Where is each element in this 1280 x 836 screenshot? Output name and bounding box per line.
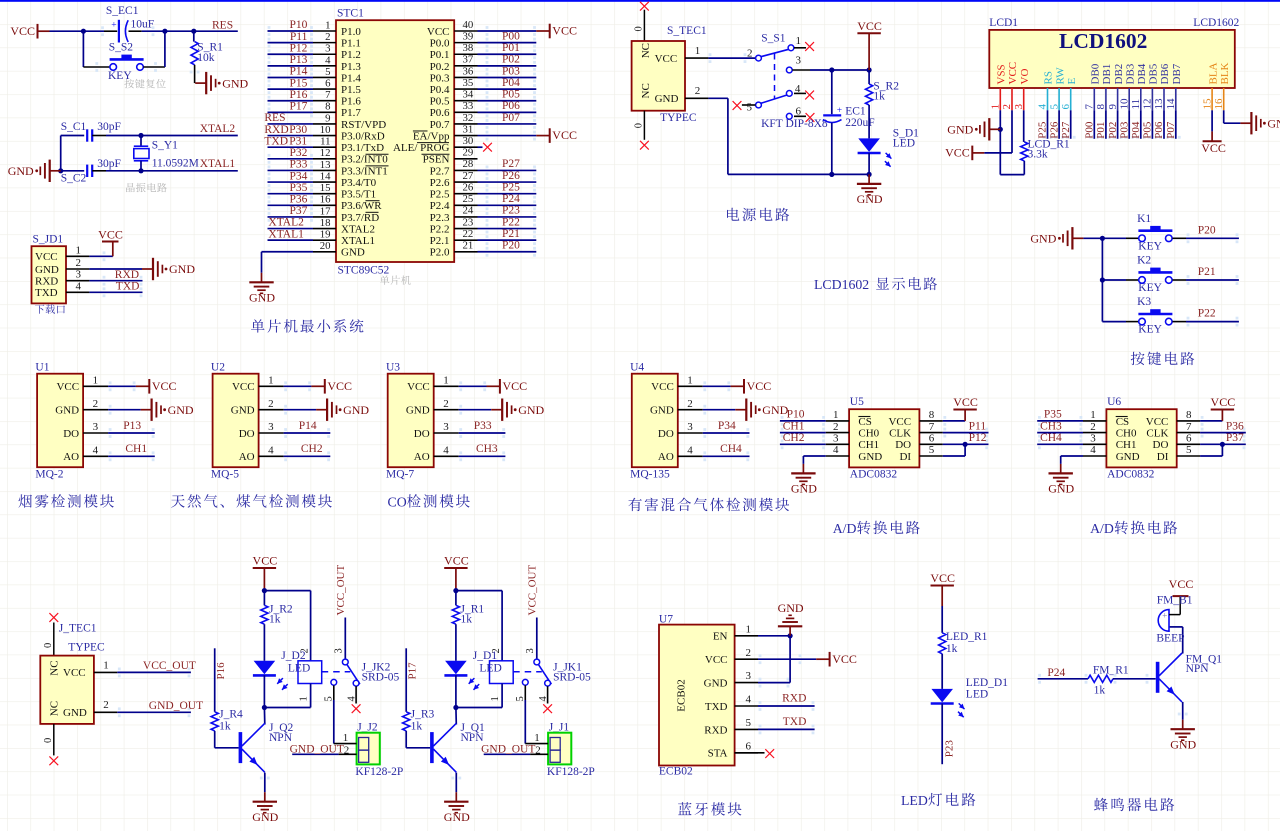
svg-text:GND: GND [249, 291, 275, 305]
svg-text:P05: P05 [502, 89, 520, 101]
svg-text:GND: GND [655, 93, 679, 105]
svg-text:1: 1 [268, 375, 274, 387]
svg-text:NPN: NPN [461, 732, 485, 744]
svg-text:XTAL2: XTAL2 [341, 223, 375, 235]
svg-text:1: 1 [695, 45, 701, 57]
svg-text:KEY: KEY [1138, 324, 1162, 336]
svg-text:RES: RES [264, 112, 285, 124]
svg-text:GND: GND [947, 123, 973, 137]
svg-text:31: 31 [463, 123, 474, 135]
svg-text:1k: 1k [946, 643, 958, 655]
svg-text:XTAL1: XTAL1 [200, 158, 236, 170]
svg-text:7: 7 [1084, 104, 1096, 110]
svg-text:P1.6: P1.6 [341, 96, 361, 108]
svg-text:10k: 10k [197, 52, 215, 64]
svg-text:30pF: 30pF [97, 158, 121, 170]
svg-text:LED: LED [479, 663, 501, 675]
svg-text:DO: DO [658, 428, 674, 440]
svg-text:VCC: VCC [552, 128, 577, 142]
svg-text:VCC_OUT: VCC_OUT [335, 564, 347, 615]
svg-text:GND: GND [444, 810, 470, 824]
svg-text:10uF: 10uF [131, 18, 155, 30]
svg-text:10: 10 [320, 124, 331, 136]
svg-text:AO: AO [239, 451, 255, 463]
svg-text:S_EC1: S_EC1 [106, 5, 139, 17]
svg-text:GND: GND [858, 451, 882, 463]
svg-text:KF128-2P: KF128-2P [547, 766, 595, 778]
svg-text:VCC: VCC [655, 53, 678, 65]
svg-text:CH3: CH3 [476, 443, 498, 455]
svg-text:24: 24 [463, 205, 474, 217]
svg-text:5: 5 [746, 717, 752, 729]
svg-text:8: 8 [1095, 104, 1107, 110]
svg-text:22: 22 [463, 228, 474, 240]
svg-text:J_TEC1: J_TEC1 [59, 623, 97, 635]
svg-text:GND: GND [252, 810, 278, 824]
svg-text:P1.3: P1.3 [341, 61, 361, 73]
svg-text:LCD1602: LCD1602 [1193, 17, 1239, 29]
svg-text:P3.5/T1: P3.5/T1 [341, 189, 376, 201]
svg-text:2: 2 [93, 398, 99, 410]
svg-text:VCC: VCC [705, 654, 728, 666]
svg-text:DB1: DB1 [1101, 64, 1113, 85]
svg-text:RES: RES [212, 19, 233, 31]
svg-text:4: 4 [76, 280, 82, 292]
svg-text:16: 16 [320, 194, 331, 206]
svg-text:1: 1 [93, 375, 99, 387]
svg-text:CS: CS [1116, 416, 1129, 428]
svg-text:SRD-05: SRD-05 [553, 672, 591, 684]
svg-text:LCD1602: LCD1602 [814, 277, 869, 292]
svg-text:STC1: STC1 [337, 8, 364, 20]
svg-text:13: 13 [1153, 98, 1165, 110]
svg-text:30pF: 30pF [97, 121, 121, 133]
svg-text:NC: NC [49, 660, 61, 675]
svg-text:CO: CO [388, 495, 407, 510]
svg-text:RXD: RXD [115, 269, 139, 281]
svg-text:NC: NC [640, 83, 652, 98]
svg-text:DO: DO [63, 428, 79, 440]
svg-text:NPN: NPN [269, 732, 293, 744]
svg-text:DO: DO [239, 428, 255, 440]
svg-text:RXD: RXD [704, 724, 727, 736]
svg-text:12: 12 [320, 147, 331, 159]
svg-text:P3.2/INT0: P3.2/INT0 [341, 154, 388, 166]
svg-text:1: 1 [490, 696, 501, 701]
svg-text:40: 40 [463, 19, 474, 31]
svg-text:2: 2 [443, 398, 449, 410]
svg-text:GND: GND [791, 482, 817, 496]
svg-text:VCC: VCC [232, 381, 255, 393]
svg-text:P0.0: P0.0 [430, 38, 450, 50]
svg-text:P14: P14 [299, 420, 317, 432]
svg-text:3: 3 [93, 421, 99, 433]
svg-text:P27: P27 [502, 158, 520, 170]
svg-text:1: 1 [1090, 409, 1096, 421]
svg-text:NPN: NPN [1186, 663, 1210, 675]
svg-text:P06: P06 [502, 100, 520, 112]
svg-text:VCC: VCC [857, 19, 882, 33]
svg-text:2: 2 [1090, 421, 1096, 433]
svg-text:P37: P37 [289, 205, 307, 217]
svg-text:1: 1 [833, 409, 839, 421]
svg-text:P11: P11 [290, 31, 308, 43]
svg-text:P03: P03 [1118, 121, 1130, 139]
svg-text:4: 4 [1037, 104, 1049, 110]
svg-text:DB4: DB4 [1136, 63, 1148, 84]
svg-text:PSEN: PSEN [423, 154, 450, 166]
svg-text:3: 3 [833, 433, 839, 445]
svg-text:U1: U1 [35, 362, 49, 374]
svg-text:2: 2 [833, 421, 839, 433]
svg-text:P3.6/WR: P3.6/WR [341, 200, 382, 212]
svg-text:8: 8 [929, 409, 935, 421]
svg-text:GND: GND [343, 403, 369, 417]
svg-text:GND: GND [650, 405, 674, 417]
svg-text:VCC: VCC [10, 24, 35, 38]
svg-text:1k: 1k [1094, 684, 1106, 696]
svg-text:VCC: VCC [63, 667, 86, 679]
svg-text:P0.2: P0.2 [430, 61, 450, 73]
svg-text:KEY: KEY [1138, 240, 1162, 252]
svg-text:EC1: EC1 [845, 106, 866, 118]
svg-text:K3: K3 [1137, 296, 1151, 308]
svg-text:P22: P22 [1198, 308, 1216, 320]
svg-text:LED_R1: LED_R1 [946, 631, 988, 643]
svg-text:A/D: A/D [1090, 521, 1114, 536]
svg-text:CH2: CH2 [301, 443, 323, 455]
svg-text:18: 18 [320, 217, 331, 229]
svg-text:P1.1: P1.1 [341, 38, 361, 50]
svg-text:GND_OUT: GND_OUT [290, 744, 344, 756]
svg-text:1: 1 [796, 35, 802, 47]
svg-text:16: 16 [1213, 98, 1225, 110]
svg-text:11: 11 [320, 136, 330, 148]
svg-text:P22: P22 [502, 216, 520, 228]
svg-text:P07: P07 [1165, 121, 1177, 139]
svg-text:21: 21 [463, 240, 474, 252]
svg-text:1: 1 [298, 696, 309, 701]
svg-text:25: 25 [463, 193, 474, 205]
svg-text:3: 3 [268, 421, 274, 433]
svg-text:9: 9 [1107, 104, 1119, 110]
svg-text:P13: P13 [123, 420, 141, 432]
svg-text:1: 1 [746, 623, 752, 635]
svg-text:P30: P30 [289, 124, 307, 136]
svg-text:GND: GND [762, 403, 788, 417]
svg-text:5: 5 [929, 444, 935, 456]
svg-text:VCC: VCC [953, 395, 978, 409]
svg-text:6: 6 [746, 740, 752, 752]
svg-text:CH1: CH1 [783, 420, 805, 432]
svg-text:P25: P25 [1037, 121, 1049, 139]
svg-text:+: + [837, 106, 842, 116]
svg-text:TYPEC: TYPEC [660, 112, 697, 124]
svg-text:J_R3: J_R3 [411, 709, 435, 721]
svg-text:P04: P04 [502, 77, 520, 89]
svg-text:4: 4 [93, 445, 99, 457]
svg-text:S_C1: S_C1 [61, 121, 87, 133]
svg-text:ADC0832: ADC0832 [850, 469, 898, 481]
svg-text:32: 32 [463, 112, 474, 124]
svg-text:P01: P01 [1095, 122, 1107, 139]
svg-text:GND: GND [518, 403, 544, 417]
svg-text:LED: LED [901, 793, 928, 808]
svg-text:P0.3: P0.3 [430, 72, 450, 84]
svg-text:2: 2 [535, 744, 541, 756]
svg-text:3: 3 [796, 55, 802, 67]
svg-text:2: 2 [687, 398, 693, 410]
svg-text:ECB02: ECB02 [676, 679, 688, 711]
svg-text:DB2: DB2 [1113, 64, 1125, 85]
svg-text:VCC: VCC [1007, 62, 1019, 85]
svg-text:GND: GND [1170, 738, 1196, 752]
svg-text:P2.5: P2.5 [430, 189, 450, 201]
svg-text:P32: P32 [289, 147, 307, 159]
svg-text:220uF: 220uF [845, 117, 874, 129]
svg-text:S_Y1: S_Y1 [152, 139, 178, 151]
svg-text:DB6: DB6 [1159, 63, 1171, 84]
svg-text:P25: P25 [502, 181, 520, 193]
svg-text:P2.4: P2.4 [430, 200, 450, 212]
svg-text:CH4: CH4 [720, 443, 742, 455]
svg-text:P33: P33 [474, 420, 492, 432]
svg-text:VCC: VCC [930, 571, 955, 585]
svg-text:S_TEC1: S_TEC1 [667, 25, 707, 37]
svg-text:STA: STA [708, 748, 728, 760]
svg-text:LED: LED [288, 663, 310, 675]
svg-text:J_R4: J_R4 [219, 709, 243, 721]
svg-text:KF128-2P: KF128-2P [355, 766, 403, 778]
svg-text:GND: GND [8, 164, 34, 178]
svg-text:TXD: TXD [705, 701, 728, 713]
svg-text:VCC: VCC [1169, 577, 1194, 591]
svg-text:DB7: DB7 [1171, 63, 1183, 84]
svg-text:GND: GND [1030, 232, 1056, 246]
svg-text:RXD: RXD [264, 124, 288, 136]
svg-text:P3.4/T0: P3.4/T0 [341, 177, 377, 189]
svg-text:1k: 1k [269, 613, 281, 625]
svg-text:2: 2 [103, 699, 109, 711]
svg-text:P34: P34 [289, 170, 307, 182]
svg-text:33: 33 [463, 100, 474, 112]
svg-text:P23: P23 [944, 740, 956, 758]
svg-text:NC: NC [640, 43, 652, 58]
svg-text:1k: 1k [411, 721, 423, 733]
svg-text:DB0: DB0 [1090, 63, 1102, 84]
svg-text:P24: P24 [1047, 667, 1065, 679]
svg-text:FM_B1: FM_B1 [1157, 594, 1193, 606]
svg-text:VCC: VCC [407, 381, 430, 393]
svg-text:DI: DI [1157, 451, 1169, 463]
svg-text:RXD: RXD [35, 276, 58, 288]
svg-text:VCC: VCC [327, 379, 352, 393]
svg-text:S_JD1: S_JD1 [33, 234, 64, 246]
svg-text:P35: P35 [1044, 409, 1062, 421]
svg-text:GND: GND [1267, 116, 1280, 130]
svg-text:GND: GND [55, 405, 79, 417]
svg-text:LCD1: LCD1 [989, 17, 1018, 29]
svg-text:+: + [1162, 611, 1167, 621]
svg-text:2: 2 [268, 398, 274, 410]
svg-text:P24: P24 [502, 193, 520, 205]
svg-text:6: 6 [325, 78, 331, 90]
svg-text:26: 26 [463, 181, 474, 193]
svg-text:DB5: DB5 [1148, 63, 1160, 84]
svg-text:20: 20 [320, 240, 331, 252]
svg-text:3: 3 [687, 421, 693, 433]
svg-text:15: 15 [1201, 98, 1213, 110]
svg-text:29: 29 [463, 147, 474, 159]
svg-text:GND: GND [704, 678, 728, 690]
svg-text:3: 3 [1090, 433, 1096, 445]
svg-text:3: 3 [333, 648, 344, 653]
svg-text:28: 28 [463, 158, 474, 170]
svg-text:VCC: VCC [552, 24, 577, 38]
svg-text:14: 14 [320, 170, 331, 182]
svg-text:XTAL1: XTAL1 [268, 228, 304, 240]
svg-text:0: 0 [43, 738, 54, 743]
svg-text:P12: P12 [289, 42, 307, 54]
svg-text:VCC: VCC [747, 379, 772, 393]
svg-text:KEY: KEY [1138, 282, 1162, 294]
svg-text:4: 4 [1090, 444, 1096, 456]
svg-text:J_D2: J_D2 [281, 650, 306, 662]
svg-text:1: 1 [534, 732, 540, 744]
svg-text:AO: AO [63, 451, 79, 463]
svg-text:7: 7 [325, 89, 331, 101]
svg-text:EN: EN [713, 631, 728, 643]
svg-text:P3.0/RxD: P3.0/RxD [341, 130, 385, 142]
svg-text:CH1: CH1 [1116, 439, 1137, 451]
svg-text:12: 12 [1142, 99, 1154, 110]
svg-text:P21: P21 [1198, 266, 1216, 278]
svg-text:38: 38 [463, 42, 474, 54]
svg-text:XTAL2: XTAL2 [268, 217, 304, 229]
svg-text:LED: LED [893, 138, 915, 150]
svg-text:P31: P31 [289, 135, 307, 147]
svg-text:3: 3 [746, 670, 752, 682]
svg-text:5: 5 [747, 102, 753, 114]
svg-text:P37: P37 [1226, 432, 1244, 444]
svg-text:SRD-05: SRD-05 [362, 672, 400, 684]
svg-text:P10: P10 [787, 409, 805, 421]
svg-text:XTAL2: XTAL2 [200, 123, 236, 135]
svg-text:S_S2: S_S2 [109, 41, 134, 53]
svg-text:STC89C52: STC89C52 [338, 265, 390, 277]
svg-text:27: 27 [463, 170, 474, 182]
svg-text:P35: P35 [289, 182, 307, 194]
svg-text:3: 3 [325, 43, 330, 55]
svg-text:GND: GND [35, 264, 59, 276]
svg-text:3: 3 [525, 648, 536, 653]
svg-text:2: 2 [1001, 104, 1013, 110]
svg-text:S_C2: S_C2 [61, 172, 87, 184]
svg-text:P21: P21 [502, 228, 520, 240]
svg-text:TXD: TXD [264, 135, 288, 147]
svg-text:13: 13 [320, 159, 331, 171]
svg-text:P00: P00 [502, 30, 520, 42]
svg-text:P2.7: P2.7 [430, 165, 450, 177]
svg-text:1: 1 [76, 244, 82, 256]
svg-text:ALE/ PROG: ALE/ PROG [393, 142, 450, 154]
svg-text:P0.5: P0.5 [430, 96, 450, 108]
svg-text:DB3: DB3 [1124, 63, 1136, 84]
svg-text:EA/Vpp: EA/Vpp [413, 130, 450, 142]
svg-text:K2: K2 [1137, 255, 1151, 267]
svg-text:DO: DO [895, 439, 911, 451]
svg-text:2: 2 [76, 257, 82, 269]
svg-text:P13: P13 [289, 54, 307, 66]
svg-text:U5: U5 [850, 396, 864, 408]
svg-text:P34: P34 [718, 420, 736, 432]
svg-text:P17: P17 [289, 101, 307, 113]
svg-text:1k: 1k [873, 91, 885, 103]
svg-text:P0.6: P0.6 [430, 107, 450, 119]
svg-text:VCC: VCC [888, 416, 911, 428]
svg-text:J_D1: J_D1 [473, 650, 498, 662]
svg-text:4: 4 [687, 445, 693, 457]
svg-text:1: 1 [343, 732, 349, 744]
svg-text:P1.7: P1.7 [341, 107, 361, 119]
svg-text:5: 5 [325, 66, 330, 78]
svg-text:GND_OUT: GND_OUT [149, 700, 203, 712]
svg-text:2: 2 [746, 647, 752, 659]
svg-text:P20: P20 [502, 240, 520, 252]
svg-text:BLK: BLK [1219, 62, 1231, 84]
svg-text:GND: GND [222, 76, 248, 90]
svg-text:GND: GND [857, 192, 883, 206]
svg-text:P12: P12 [969, 432, 987, 444]
svg-text:5: 5 [1186, 444, 1192, 456]
svg-text:34: 34 [463, 89, 474, 101]
svg-text:FM_R1: FM_R1 [1093, 664, 1129, 676]
svg-text:8: 8 [325, 101, 330, 113]
svg-text:U2: U2 [211, 362, 225, 374]
svg-text:P2.6: P2.6 [430, 177, 450, 189]
svg-text:4: 4 [268, 445, 274, 457]
svg-text:CH4: CH4 [1040, 432, 1062, 444]
svg-text:XTAL1: XTAL1 [341, 235, 375, 247]
svg-text:P20: P20 [1198, 224, 1216, 236]
svg-text:P0.1: P0.1 [430, 49, 450, 61]
svg-text:0: 0 [634, 26, 645, 31]
svg-text:VCC: VCC [35, 251, 58, 263]
svg-text:A/D: A/D [833, 521, 857, 536]
svg-text:P07: P07 [502, 112, 520, 124]
svg-text:VSS: VSS [996, 64, 1008, 84]
svg-text:4: 4 [833, 444, 839, 456]
svg-text:MQ-5: MQ-5 [211, 469, 239, 481]
svg-text:VCC: VCC [503, 379, 528, 393]
svg-text:4: 4 [746, 694, 752, 706]
svg-text:1: 1 [325, 19, 330, 31]
svg-text:2: 2 [695, 85, 701, 97]
svg-text:CLK: CLK [1146, 428, 1168, 440]
svg-text:P1.2: P1.2 [341, 49, 361, 61]
svg-text:23: 23 [463, 216, 474, 228]
svg-text:P26: P26 [1048, 121, 1060, 139]
svg-text:4: 4 [325, 54, 331, 66]
svg-text:17: 17 [320, 205, 331, 217]
svg-text:6: 6 [929, 433, 935, 445]
svg-text:P2.1: P2.1 [430, 235, 450, 247]
svg-text:TXD: TXD [116, 281, 140, 293]
svg-text:CH2: CH2 [783, 432, 805, 444]
svg-text:P01: P01 [502, 42, 520, 54]
svg-text:P33: P33 [289, 159, 307, 171]
svg-text:K1: K1 [1137, 213, 1151, 225]
